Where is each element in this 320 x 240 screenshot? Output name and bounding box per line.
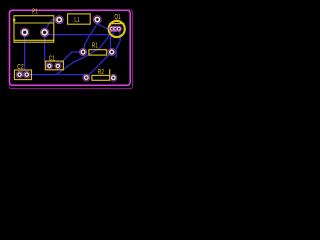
svg-text:L1: L1 (74, 15, 79, 24)
svg-text:P1: P1 (32, 6, 38, 15)
svg-text:R1: R1 (92, 41, 98, 50)
svg-text:R2: R2 (98, 67, 104, 76)
svg-text:C1: C1 (49, 53, 55, 62)
svg-text:C2: C2 (17, 62, 23, 71)
svg-text:Q1: Q1 (114, 12, 120, 21)
